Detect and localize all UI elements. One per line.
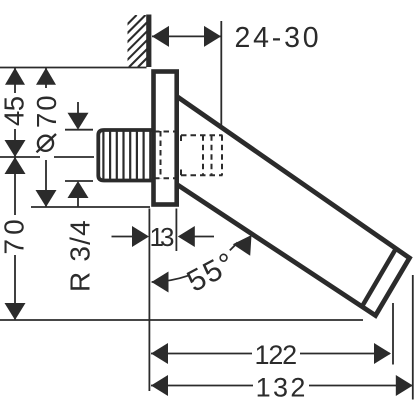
svg-text:70: 70 <box>0 215 30 254</box>
dimension 45 <box>14 68 16 157</box>
wall face line <box>146 15 151 68</box>
dimension 24-30 <box>152 35 221 37</box>
threaded connector body <box>98 130 151 181</box>
svg-text:122: 122 <box>255 340 297 370</box>
wall hatch <box>85 15 199 67</box>
svg-text:13: 13 <box>150 222 174 252</box>
svg-text:24-30: 24-30 <box>235 22 322 54</box>
dimension 70 (left) <box>14 157 16 320</box>
dimension 13 <box>112 236 215 238</box>
outlet rim line <box>362 249 396 307</box>
svg-text:45: 45 <box>0 96 30 126</box>
dimension R 3/4 <box>77 102 79 207</box>
dimension 132 <box>151 385 412 387</box>
svg-text:132: 132 <box>256 373 308 403</box>
svg-text:70: 70 <box>31 93 62 128</box>
dimension Ø 70 <box>45 68 47 207</box>
svg-text:R 3/4: R 3/4 <box>65 219 96 292</box>
dimension 55 degrees <box>152 276 189 282</box>
dimension 122 <box>151 353 390 355</box>
pipe (angled spout tube) <box>177 97 410 316</box>
thread lines <box>103 132 150 180</box>
hidden thread lines (dashed) <box>154 131 223 179</box>
wall plate (escutcheon) <box>154 72 177 205</box>
